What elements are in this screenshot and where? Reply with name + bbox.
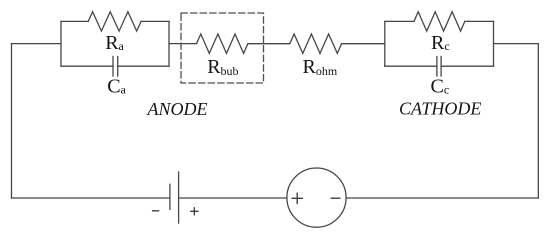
source V1 circle [287,168,346,227]
wire anode bottom branch left [61,65,113,67]
wire anode top branch left [61,20,88,22]
wire anode top branch right [141,20,169,22]
battery B1 negative plate (short) [169,184,171,209]
wire Rbub to Rohm [248,43,290,45]
dashed bubble box around Rbub [181,13,264,83]
wire source to right corner [346,197,538,199]
battery plus sign label [191,210,198,212]
battery minus sign label [153,210,159,212]
cathode RC box right vertical wire [493,21,495,66]
resistor Rbub zigzag [197,34,248,53]
wire cathode top branch right [465,20,494,22]
wire anode box to Rbub [169,43,197,45]
wire cathode top branch left [385,20,414,22]
resistor Rc zigzag [414,12,465,31]
wire left lead (top-left horizontal) [12,43,62,45]
wire right lead (top-right horizontal) [494,43,539,45]
cathode RC box left vertical wire [384,21,386,66]
wire cathode bottom branch left [385,65,437,67]
svg-text:Ra: Ra [105,32,124,54]
svg-text:Rohm: Rohm [303,56,338,78]
capacitor Ca left plate [112,57,114,77]
wire bottom left segment [12,197,170,199]
capacitor Ca right plate [117,57,119,77]
resistor Rohm zigzag [290,34,342,53]
svg-text:CATHODE: CATHODE [399,99,481,119]
wire cathode bottom branch right [441,65,493,67]
svg-text:Rc: Rc [431,32,450,54]
svg-text:Rbub: Rbub [207,56,238,78]
capacitor Cc right plate [440,57,442,77]
svg-text:Ca: Ca [107,76,126,98]
wire anode bottom branch right [118,65,169,67]
source plus sign (inside circle) [292,197,302,199]
wire outer left vertical [11,44,13,198]
resistor Ra zigzag [88,12,141,31]
anode RC box right vertical wire [168,21,170,66]
svg-text:Cc: Cc [431,76,450,98]
svg-text:ANODE: ANODE [147,99,208,119]
anode RC box left vertical wire [60,21,62,66]
wire battery to source [179,197,287,199]
wire Rohm to cathode box [342,43,385,45]
source minus sign (inside circle) [331,197,340,199]
capacitor Cc left plate [436,57,438,77]
battery B1 positive plate (long) [178,172,180,223]
wire outer right vertical [537,44,539,198]
